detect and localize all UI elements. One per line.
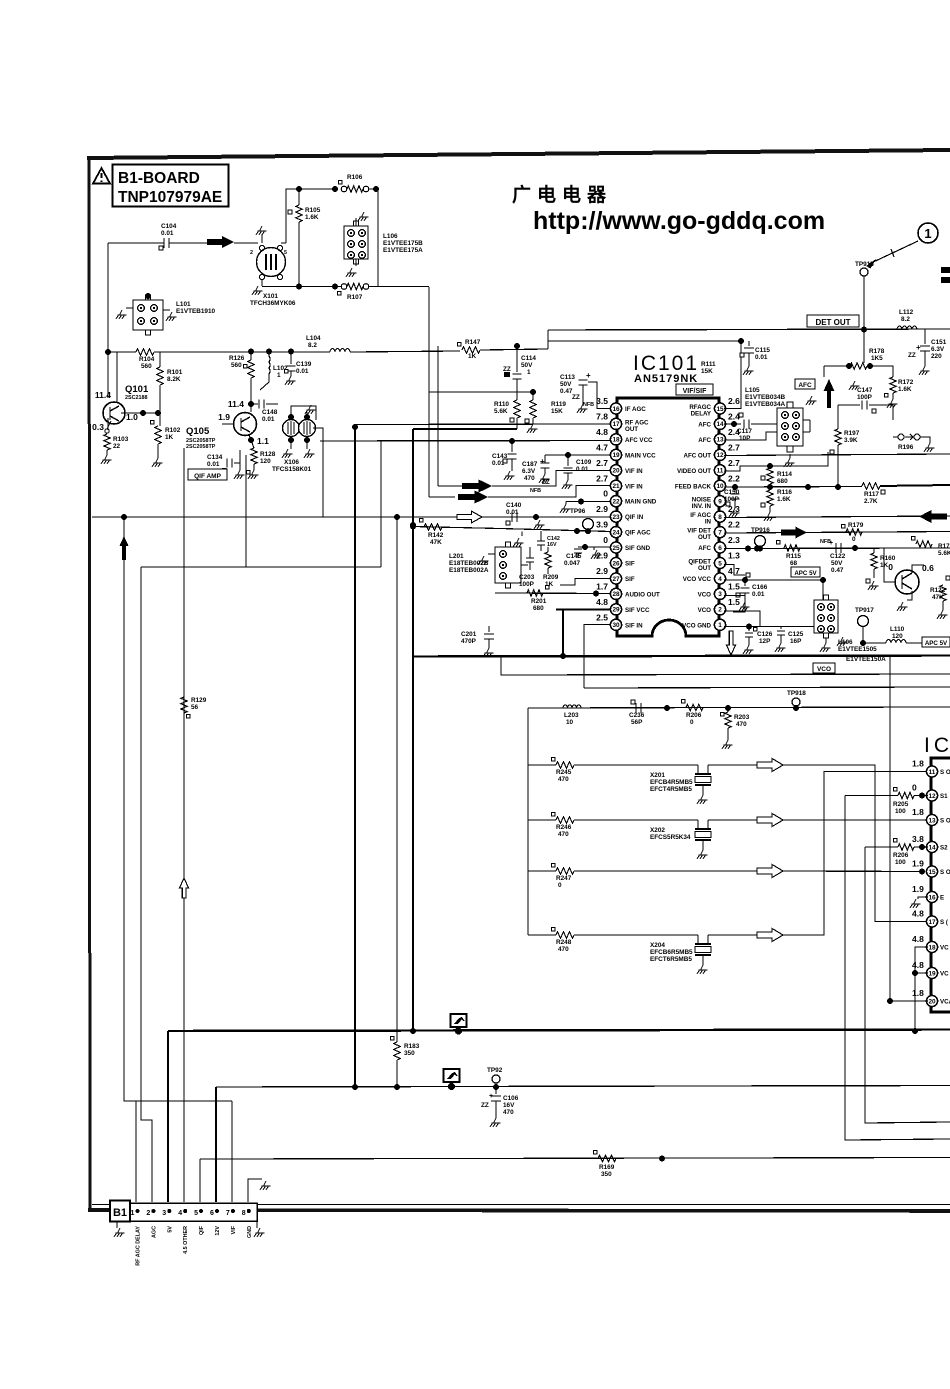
svg-text:R205: R205 <box>893 801 909 808</box>
IC101 pin 18 <box>610 434 621 445</box>
svg-text:68: 68 <box>790 560 798 567</box>
svg-text:470: 470 <box>558 776 569 783</box>
resistor R246 470 <box>528 819 556 821</box>
svg-text:680: 680 <box>777 478 788 485</box>
svg-text:AFC: AFC <box>798 382 812 389</box>
svg-text:C139: C139 <box>296 361 312 368</box>
svg-text:6: 6 <box>718 545 722 552</box>
svg-text:R169: R169 <box>599 1164 615 1171</box>
svg-text:29: 29 <box>612 607 620 614</box>
svg-text:C151: C151 <box>931 339 947 346</box>
resistor R104 560 <box>105 349 111 355</box>
svg-text:C104: C104 <box>161 223 177 230</box>
svg-text:4.8: 4.8 <box>912 934 924 944</box>
svg-text:E1VTEE150A: E1VTEE150A <box>846 656 886 663</box>
label VIF/SIF <box>676 384 713 395</box>
IC101 pin 10 <box>714 480 725 491</box>
svg-text:EFCB6R5MB5: EFCB6R5MB5 <box>650 949 693 956</box>
svg-text:NFB: NFB <box>530 488 541 494</box>
wire pin25 SIF GND <box>578 546 611 548</box>
wire TP915 riser <box>863 276 865 363</box>
svg-text:16: 16 <box>612 406 620 413</box>
svg-text:100: 100 <box>895 859 906 866</box>
svg-text:3.8: 3.8 <box>912 834 924 844</box>
svg-text:L104: L104 <box>306 335 321 342</box>
svg-text:X204: X204 <box>650 942 665 949</box>
IC2 pin 20 <box>926 995 937 1006</box>
wire vertical riser x108 lower <box>107 418 109 430</box>
svg-text:1: 1 <box>924 226 931 241</box>
svg-text:R209: R209 <box>543 574 559 581</box>
svg-text:TP92: TP92 <box>487 1067 503 1074</box>
IC2 pin 17 <box>926 916 937 927</box>
svg-text:1.9: 1.9 <box>912 859 924 869</box>
resistor R128 120 <box>249 435 254 448</box>
svg-text:E1VTEE175B: E1VTEE175B <box>383 240 423 247</box>
svg-text:IN: IN <box>705 519 712 526</box>
svg-text:+: + <box>540 457 545 466</box>
svg-text:120: 120 <box>892 633 903 640</box>
IC101 pin 22 <box>610 496 621 507</box>
wire pin18 AFC VCC thick <box>320 440 611 443</box>
wire riser x438 <box>437 346 439 486</box>
svg-text:18: 18 <box>928 944 936 951</box>
svg-text:R110: R110 <box>494 401 509 408</box>
IC101 pin 25 <box>610 542 621 553</box>
svg-text:QIF AGC: QIF AGC <box>625 530 651 537</box>
svg-text:4.8: 4.8 <box>912 909 924 919</box>
svg-text:C201: C201 <box>461 631 477 638</box>
svg-text:SIF: SIF <box>625 561 635 568</box>
svg-text:120: 120 <box>260 458 271 465</box>
resistor R142 47K <box>424 524 442 530</box>
svg-text:11: 11 <box>717 468 724 475</box>
svg-text:470P: 470P <box>461 638 477 645</box>
svg-text:1.8: 1.8 <box>912 988 924 998</box>
IC2 pin 19 <box>926 967 937 978</box>
label DET OUT <box>807 315 859 327</box>
svg-text:X101: X101 <box>263 293 278 300</box>
svg-text:20: 20 <box>612 468 620 475</box>
inductor L102 <box>269 356 270 374</box>
node marker circled 1 <box>918 223 938 243</box>
svg-text:7: 7 <box>718 529 722 536</box>
wire IC2 VCC chain <box>915 947 928 1031</box>
filter can L106 E1VTEE175B <box>344 226 368 259</box>
svg-text:SIF IN: SIF IN <box>625 622 643 629</box>
svg-text:RF AGC DELAY: RF AGC DELAY <box>136 1226 142 1266</box>
svg-text:27: 27 <box>612 576 620 583</box>
svg-text:1.5: 1.5 <box>728 581 740 591</box>
svg-text:1.5: 1.5 <box>728 597 740 607</box>
svg-text:SIF GND: SIF GND <box>625 545 651 552</box>
svg-text:FEED BACK: FEED BACK <box>675 483 712 490</box>
svg-text:470: 470 <box>524 475 535 482</box>
IC2 body <box>931 758 950 1012</box>
svg-text:560: 560 <box>141 363 152 370</box>
signal arrow into X101 <box>207 236 234 248</box>
wire riser x124 to pin1 <box>124 517 136 1202</box>
svg-text:1: 1 <box>131 1210 135 1217</box>
svg-text:0: 0 <box>603 535 608 545</box>
wire riser x890 <box>889 655 891 1001</box>
svg-text:AFC: AFC <box>698 545 711 552</box>
svg-text:AGC: AGC <box>151 1226 157 1238</box>
filter X101 TFCH36MYK06 <box>257 248 286 277</box>
svg-text:1.9: 1.9 <box>218 412 230 422</box>
svg-text:E: E <box>940 895 944 902</box>
resistor R201 680 <box>527 590 543 596</box>
wire rail y688 SIF <box>584 687 950 688</box>
svg-text:350: 350 <box>404 1050 415 1057</box>
svg-text:0: 0 <box>690 719 694 726</box>
svg-text:28: 28 <box>612 591 620 598</box>
svg-text:0: 0 <box>603 489 608 499</box>
svg-text:3: 3 <box>162 1210 166 1217</box>
svg-text:4.5 OTHER: 4.5 OTHER <box>183 1226 189 1254</box>
resistor R248 470 <box>528 934 556 936</box>
svg-text:0: 0 <box>558 882 562 889</box>
svg-text:56: 56 <box>191 704 199 711</box>
svg-text:AFC: AFC <box>698 421 711 428</box>
svg-text:19: 19 <box>612 452 620 459</box>
svg-text:DELAY: DELAY <box>691 411 712 418</box>
svg-text:http://www.go-gddq.com: http://www.go-gddq.com <box>533 207 825 235</box>
svg-text:INV. IN: INV. IN <box>692 503 712 510</box>
svg-text:X201: X201 <box>650 772 665 779</box>
svg-text:10: 10 <box>566 719 574 726</box>
IC101 pin 1 <box>714 619 725 630</box>
IC101 pin 8 <box>714 511 725 522</box>
svg-text:R104: R104 <box>139 356 155 363</box>
IC2 pin 13 <box>926 814 937 825</box>
wire pin11 VIDEO OUT rail <box>724 452 828 471</box>
svg-text:0.047: 0.047 <box>564 560 580 567</box>
wire pin12 AFC OUT rail <box>724 454 950 456</box>
svg-text:VCO: VCO <box>698 591 712 598</box>
svg-text:0.47: 0.47 <box>831 567 844 574</box>
wire pin1 VCO GND row <box>724 626 823 628</box>
svg-text:C113: C113 <box>560 374 575 381</box>
svg-text:L201: L201 <box>449 553 464 560</box>
wire pin5 riser <box>199 1159 201 1202</box>
svg-text:L106: L106 <box>383 233 398 240</box>
svg-text:5: 5 <box>284 250 287 256</box>
resistor R197 3.9K <box>835 429 841 445</box>
IC101 pin 7 <box>714 527 725 538</box>
resistor R247 0 <box>528 870 556 872</box>
svg-text:0: 0 <box>912 783 917 793</box>
signal arrow up outline on x184 <box>180 878 189 898</box>
svg-text:TFCS158K01: TFCS158K01 <box>272 466 312 473</box>
wire pin14 row with C117 <box>724 423 741 425</box>
svg-text:10P: 10P <box>739 435 751 442</box>
svg-text:350: 350 <box>601 1171 612 1178</box>
wire frame bottom border <box>88 1210 950 1211</box>
svg-text:R119: R119 <box>551 401 566 408</box>
IC2 pin 15 <box>926 866 937 877</box>
svg-text:R116: R116 <box>777 489 792 496</box>
svg-text:E1VTEB034A: E1VTEB034A <box>745 401 786 408</box>
svg-text:14: 14 <box>716 421 724 428</box>
svg-text:C126: C126 <box>757 631 773 638</box>
svg-text:APC 5V: APC 5V <box>794 570 817 577</box>
svg-text:R106: R106 <box>347 174 363 181</box>
svg-text:3.5: 3.5 <box>596 396 608 406</box>
IC101 pin 6 <box>714 542 725 553</box>
svg-text:R178: R178 <box>869 348 885 355</box>
wire pin19 MAIN VCC <box>545 454 611 456</box>
svg-text:R246: R246 <box>556 824 572 831</box>
svg-text:AUDIO OUT: AUDIO OUT <box>625 591 660 598</box>
svg-text:S2: S2 <box>940 845 948 852</box>
wire row4 to IC2 pin11 <box>783 772 928 936</box>
svg-text:4: 4 <box>718 576 722 583</box>
svg-text:ZZ: ZZ <box>572 394 580 401</box>
svg-text:C114: C114 <box>521 355 536 362</box>
wire 5V bus thick y1031 <box>168 1030 950 1032</box>
svg-text:TP96: TP96 <box>570 508 586 515</box>
wire pin3 riser thick <box>167 1031 169 1202</box>
svg-text:VIF: VIF <box>231 1225 237 1234</box>
wire pin8 rail with left arrow <box>724 516 950 518</box>
svg-text:广电电器: 广电电器 <box>512 183 612 206</box>
IC101 pin 16 <box>610 403 621 414</box>
svg-text:1.8: 1.8 <box>912 807 924 817</box>
svg-text:1K: 1K <box>468 353 477 360</box>
wire X101 bottom row <box>262 286 299 288</box>
svg-text:R128: R128 <box>260 451 276 458</box>
resistor R205 100 <box>845 795 898 797</box>
svg-text:10: 10 <box>716 483 724 490</box>
svg-text:X106: X106 <box>284 459 299 466</box>
svg-text:17: 17 <box>612 421 620 428</box>
svg-text:R103: R103 <box>113 436 129 443</box>
IC101 pin 14 <box>714 418 725 429</box>
resistor R117 2.7K <box>862 483 880 489</box>
resistor R114 680 <box>767 468 773 484</box>
svg-text:5.6K: 5.6K <box>938 550 950 557</box>
svg-text:ZZ: ZZ <box>542 479 550 486</box>
label boxed arrow 2 <box>444 1069 460 1082</box>
wire rail y1159 <box>200 1158 950 1160</box>
label APC 5V right <box>922 637 950 647</box>
wire hook top of X106 <box>291 406 316 420</box>
svg-text:Q101: Q101 <box>125 384 149 395</box>
svg-text:470: 470 <box>558 946 569 953</box>
svg-text:18: 18 <box>612 437 620 444</box>
wire pin15 riser and y341 rail <box>724 341 741 409</box>
svg-text:EFCS5R5K34: EFCS5R5K34 <box>650 834 691 841</box>
wire QIF input line <box>92 516 611 518</box>
filter X106 TFCS158K01 <box>283 420 300 437</box>
IC101 pin 20 <box>610 465 621 476</box>
wire pin10 FEED BACK rail <box>724 486 862 489</box>
resistor R107 <box>341 284 347 290</box>
wire pin28 AUDIO OUT row <box>495 592 611 595</box>
svg-text:R102: R102 <box>165 427 181 434</box>
IC101 pin 3 <box>714 588 725 599</box>
svg-text:C140: C140 <box>506 502 522 509</box>
svg-text:R147: R147 <box>465 339 481 346</box>
wire frame left border <box>89 156 90 1212</box>
svg-text:12V: 12V <box>215 1226 221 1236</box>
wire pin3 stub <box>724 596 745 613</box>
svg-text:220: 220 <box>931 353 942 360</box>
connector B1 body <box>130 1203 257 1221</box>
svg-text:QIF: QIF <box>199 1225 205 1235</box>
svg-text:0.01: 0.01 <box>576 466 589 473</box>
svg-text:1.3: 1.3 <box>728 551 740 561</box>
resistor R101 8.2K <box>159 352 161 367</box>
svg-text:3.9: 3.9 <box>596 520 608 530</box>
svg-text:B1-BOARD: B1-BOARD <box>118 170 200 187</box>
svg-text:L112: L112 <box>899 309 914 316</box>
wire jog y1101 <box>124 1100 232 1102</box>
svg-text:6: 6 <box>210 1210 214 1217</box>
svg-text:E1VTEB034B: E1VTEB034B <box>745 394 786 401</box>
svg-text:R245: R245 <box>556 769 572 776</box>
resistor R172 1.6K <box>890 377 896 393</box>
svg-text:0.47: 0.47 <box>560 388 573 395</box>
svg-text:R201: R201 <box>531 598 547 605</box>
svg-text:APC 5V: APC 5V <box>925 640 948 647</box>
svg-text:C122: C122 <box>830 553 846 560</box>
svg-text:R117: R117 <box>864 491 879 498</box>
svg-text:21: 21 <box>612 483 620 490</box>
svg-text:S O: S O <box>940 769 950 776</box>
svg-text:2.7: 2.7 <box>596 473 608 483</box>
svg-text:SIF: SIF <box>625 576 635 583</box>
ground X101 left <box>261 280 263 286</box>
svg-text:+: + <box>829 540 833 547</box>
svg-text:MAIN GND: MAIN GND <box>625 499 657 506</box>
svg-text:26: 26 <box>612 560 620 567</box>
svg-text:C106: C106 <box>503 1095 519 1102</box>
svg-text:C125: C125 <box>788 631 804 638</box>
svg-text:+: + <box>586 371 591 380</box>
svg-text:C148: C148 <box>262 409 278 416</box>
svg-text:11.4: 11.4 <box>228 399 244 409</box>
IC101 pin 9 <box>714 496 725 507</box>
svg-text:5: 5 <box>194 1210 198 1217</box>
svg-text:AN5179NK: AN5179NK <box>634 373 698 385</box>
svg-text:50V: 50V <box>560 381 572 388</box>
svg-text:0: 0 <box>888 562 893 572</box>
svg-text:4.8: 4.8 <box>596 427 608 437</box>
svg-text:2.4: 2.4 <box>728 411 740 421</box>
signal arrow row R245 <box>757 759 783 772</box>
svg-text:L110: L110 <box>890 626 905 633</box>
svg-text:S1: S1 <box>940 793 948 800</box>
IC101 pin 24 <box>610 527 621 538</box>
IC101 pin 26 <box>610 557 621 568</box>
svg-text:X202: X202 <box>650 827 665 834</box>
svg-text:TP915: TP915 <box>855 261 874 268</box>
IC101 pin 19 <box>610 449 621 460</box>
wire pin4 VCO VCC row <box>724 579 823 581</box>
svg-text:E1VTEE1505: E1VTEE1505 <box>838 646 877 653</box>
svg-text:1: 1 <box>277 372 281 379</box>
IC101 pin 29 <box>610 604 621 615</box>
svg-text:EFCB4R5MB5: EFCB4R5MB5 <box>650 779 693 786</box>
IC101 pin 23 <box>610 511 621 522</box>
svg-text:C115: C115 <box>755 347 770 354</box>
signal arrow row R247 <box>757 865 783 878</box>
svg-text:50V: 50V <box>521 362 533 369</box>
svg-text:R197: R197 <box>844 430 860 437</box>
wire riser x141 to pin2 <box>141 567 152 1202</box>
svg-text:R160: R160 <box>880 555 896 562</box>
svg-text:22: 22 <box>113 443 121 450</box>
svg-text:R111: R111 <box>701 361 716 368</box>
svg-text:L203: L203 <box>564 712 579 719</box>
svg-text:7: 7 <box>226 1210 230 1217</box>
resistor R115 68 <box>784 545 800 551</box>
svg-text:2.5: 2.5 <box>596 612 608 622</box>
svg-text:1.6K: 1.6K <box>777 496 791 503</box>
wire row y567 <box>141 566 381 568</box>
wire riser x246 <box>245 455 247 567</box>
svg-text:C236: C236 <box>629 712 645 719</box>
IC101 pin 2 <box>714 604 725 615</box>
svg-text:C166: C166 <box>752 584 768 591</box>
svg-text:6.3V: 6.3V <box>931 346 945 353</box>
svg-text:0.01: 0.01 <box>755 354 768 361</box>
svg-text:OUT: OUT <box>698 534 711 541</box>
svg-text:0.01: 0.01 <box>262 416 275 423</box>
ground below B1 right <box>256 1221 258 1228</box>
svg-text:R179: R179 <box>848 522 864 529</box>
svg-text:0.01: 0.01 <box>161 230 174 237</box>
ground IC2 pin16 <box>918 897 928 899</box>
svg-text:VCA: VCA <box>940 999 950 1006</box>
svg-text:680: 680 <box>533 605 544 612</box>
IC2 pin 11 <box>926 766 937 777</box>
wire AGC riser x355 <box>354 425 356 1087</box>
svg-text:R247: R247 <box>556 875 572 882</box>
svg-text:R171: R171 <box>938 543 950 550</box>
svg-text:L101: L101 <box>176 301 191 308</box>
wire thick riser x413 <box>412 429 414 1031</box>
svg-text:ZZ: ZZ <box>503 366 511 373</box>
svg-text:0.01: 0.01 <box>296 368 309 375</box>
wire pin5 QIFDET stub <box>724 565 745 576</box>
svg-text:R107: R107 <box>347 294 363 301</box>
svg-text:AFC VCC: AFC VCC <box>625 437 653 444</box>
wire rail y1087 <box>216 1086 950 1088</box>
svg-text:0.01: 0.01 <box>207 461 220 468</box>
wire frame top border <box>87 150 950 158</box>
svg-text:560: 560 <box>231 362 242 369</box>
svg-text:2.3: 2.3 <box>728 535 740 545</box>
svg-text:VIF IN: VIF IN <box>625 468 643 475</box>
svg-text:E18TEB002A: E18TEB002A <box>449 567 489 574</box>
svg-text:VIDEO OUT: VIDEO OUT <box>677 468 711 475</box>
svg-text:TFCH36MYK06: TFCH36MYK06 <box>250 300 296 307</box>
IC2 pin 16 <box>926 891 937 902</box>
svg-text:5.6K: 5.6K <box>494 408 508 415</box>
resistor R183 350 <box>394 1042 400 1060</box>
wire bottom thin rail <box>92 1204 950 1206</box>
svg-text:470: 470 <box>503 1109 514 1116</box>
svg-text:2SC2058TP: 2SC2058TP <box>186 444 216 450</box>
board name box B1-BOARD TNP107979AE <box>113 165 229 207</box>
svg-text:C134: C134 <box>207 454 223 461</box>
svg-text:23: 23 <box>612 514 620 521</box>
resistor R105 1.6K <box>298 189 300 205</box>
svg-text:R183: R183 <box>404 1043 420 1050</box>
